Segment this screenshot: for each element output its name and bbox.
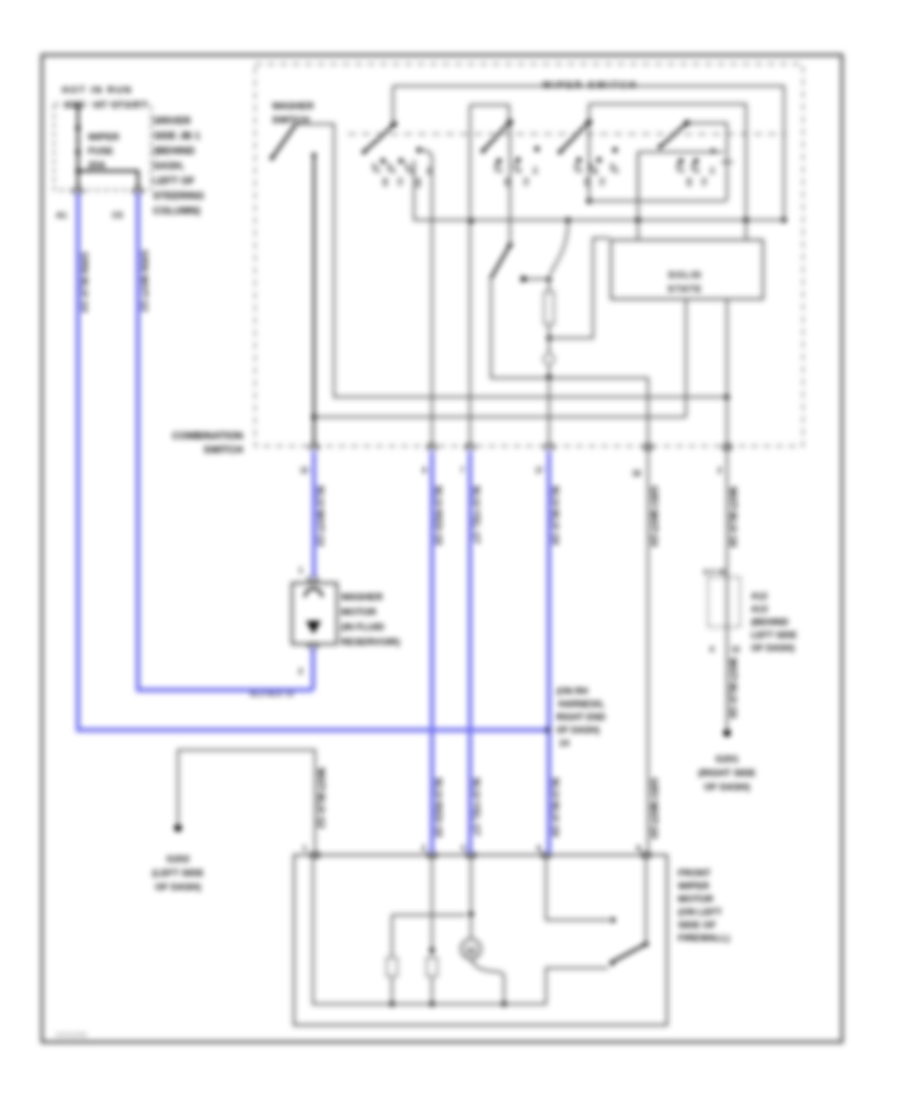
- svg-text:SWITCH: SWITCH: [204, 445, 243, 456]
- svg-text:A13: A13: [751, 604, 768, 614]
- svg-text:+1: +1: [374, 166, 381, 174]
- svg-text:4: 4: [537, 844, 542, 853]
- svg-text:HOT IN RUN: HOT IN RUN: [62, 85, 132, 96]
- svg-text:+2: +2: [693, 166, 700, 174]
- svg-text:A C 42: A C 42: [703, 567, 726, 576]
- svg-text:8: 8: [423, 466, 428, 475]
- svg-text:BLU-BLK-19: BLU-BLK-19: [550, 778, 560, 837]
- svg-text:STATE: STATE: [668, 284, 703, 295]
- svg-text:AND: AND: [64, 100, 85, 111]
- svg-text:B3: B3: [381, 178, 388, 187]
- svg-text:SOLID: SOLID: [668, 270, 702, 281]
- svg-text:14: 14: [559, 738, 569, 748]
- svg-text:SWITCH: SWITCH: [272, 115, 310, 126]
- svg-text:M: M: [466, 944, 476, 958]
- svg-text:DRIVER: DRIVER: [153, 116, 192, 127]
- svg-text:+1: +1: [576, 166, 583, 174]
- svg-text:WIPER: WIPER: [678, 881, 709, 892]
- svg-text:+2: +2: [612, 166, 619, 174]
- svg-text:FUSE: FUSE: [88, 146, 113, 157]
- svg-text:(RIGHT SIDE: (RIGHT SIDE: [698, 768, 756, 779]
- svg-text:4: 4: [710, 645, 715, 654]
- svg-text:RESERVOIR): RESERVOIR): [341, 637, 400, 648]
- svg-text:G201: G201: [715, 754, 739, 765]
- svg-text:(IN FLUID: (IN FLUID: [341, 622, 384, 633]
- svg-text:+S: +S: [531, 166, 538, 175]
- svg-text:13: 13: [300, 466, 309, 475]
- svg-text:BLU-BLK-19: BLU-BLK-19: [550, 486, 560, 545]
- svg-text:+1: +1: [496, 166, 503, 174]
- svg-text:B3: B3: [583, 178, 590, 187]
- svg-text:MOTOR: MOTOR: [341, 607, 376, 618]
- svg-text:WHT-BLK-12: WHT-BLK-12: [316, 768, 326, 829]
- svg-text:2: 2: [299, 667, 304, 676]
- svg-text:GRY-WHT-24: GRY-WHT-24: [649, 778, 659, 839]
- svg-text:E1: E1: [396, 178, 403, 186]
- svg-text:BLU-RED-15: BLU-RED-15: [433, 778, 443, 838]
- svg-text:OF DASH): OF DASH): [155, 882, 201, 893]
- svg-text:(ON LEFT: (ON LEFT: [678, 907, 722, 918]
- svg-text:+2: +2: [515, 166, 522, 174]
- svg-text:STEERING: STEERING: [153, 191, 204, 202]
- svg-text:+S: +S: [708, 166, 715, 175]
- svg-text:BLU-WHT-13: BLU-WHT-13: [315, 486, 325, 547]
- svg-text:(LEFT SIDE: (LEFT SIDE: [152, 868, 204, 879]
- svg-text:E1: E1: [522, 178, 529, 186]
- svg-text:SIDE OF: SIDE OF: [678, 920, 716, 931]
- svg-text:M1002458: M1002458: [56, 1032, 87, 1039]
- svg-text:7: 7: [461, 466, 466, 475]
- svg-text:GRN-BLK-14: GRN-BLK-14: [79, 252, 89, 313]
- svg-text:COLUMN): COLUMN): [153, 206, 200, 217]
- svg-text:BLU-BLK 16: BLU-BLK 16: [250, 689, 294, 698]
- svg-text:1: 1: [299, 566, 304, 575]
- svg-text:+B: +B: [425, 166, 432, 175]
- svg-text:OF DASH): OF DASH): [704, 782, 750, 793]
- svg-text:16: 16: [632, 469, 641, 478]
- svg-text:WASHER: WASHER: [341, 592, 383, 603]
- svg-text:DASH,: DASH,: [153, 161, 184, 172]
- svg-text:C5: C5: [112, 210, 123, 220]
- svg-text:OF DASH): OF DASH): [556, 725, 600, 735]
- svg-text:5: 5: [462, 844, 467, 853]
- svg-text:+S: +S: [407, 166, 414, 175]
- svg-text:LEFT OF: LEFT OF: [153, 176, 195, 187]
- svg-text:AT START: AT START: [94, 100, 148, 111]
- svg-text:3: 3: [422, 844, 427, 853]
- svg-text:FRONT: FRONT: [678, 868, 711, 879]
- svg-text:W2: W2: [414, 178, 421, 188]
- svg-text:OF DASH): OF DASH): [751, 643, 795, 653]
- svg-text:A12: A12: [751, 591, 768, 601]
- svg-text:E1: E1: [700, 178, 707, 186]
- svg-text:17: 17: [535, 466, 544, 475]
- svg-text:(BEHIND: (BEHIND: [153, 146, 195, 157]
- svg-text:WHT-BLK-16: WHT-BLK-16: [728, 487, 738, 548]
- svg-text:6: 6: [637, 844, 642, 853]
- svg-text:LEFT SIDE: LEFT SIDE: [751, 630, 797, 640]
- svg-text:2: 2: [718, 466, 723, 475]
- svg-text:G202: G202: [166, 854, 189, 865]
- svg-text:WHT-BLK-16: WHT-BLK-16: [728, 658, 738, 719]
- svg-text:+1: +1: [678, 166, 685, 174]
- svg-text:(BEHIND: (BEHIND: [751, 617, 789, 627]
- svg-text:GRY-WHT-24: GRY-WHT-24: [649, 486, 659, 547]
- svg-text:COMBINATION: COMBINATION: [172, 431, 243, 442]
- svg-text:E1: E1: [598, 178, 605, 186]
- svg-text:SIDE JB 1: SIDE JB 1: [153, 131, 201, 142]
- svg-text:B3: B3: [503, 178, 510, 187]
- svg-text:MOTOR: MOTOR: [678, 894, 713, 905]
- svg-text:RIGHT END: RIGHT END: [556, 712, 606, 722]
- svg-text:WIPER: WIPER: [88, 132, 119, 143]
- svg-text:HARNESS,: HARNESS,: [558, 699, 605, 709]
- svg-text:A1: A1: [56, 210, 67, 220]
- svg-text:GRN-WHT-12: GRN-WHT-12: [139, 250, 149, 312]
- svg-text:FIREWALL): FIREWALL): [678, 933, 730, 944]
- svg-text:+2: +2: [389, 166, 396, 174]
- svg-text:BLU-RED-15: BLU-RED-15: [433, 486, 443, 546]
- svg-text:1: 1: [303, 844, 308, 853]
- svg-text:WASHER: WASHER: [272, 101, 314, 112]
- svg-text:20A: 20A: [88, 160, 106, 171]
- svg-text:(ON RH: (ON RH: [556, 686, 588, 696]
- svg-text:12: 12: [731, 645, 740, 654]
- svg-text:BLU-YEL-17: BLU-YEL-17: [471, 486, 481, 544]
- svg-text:B3: B3: [685, 178, 692, 187]
- svg-text:BLU-YEL-17: BLU-YEL-17: [471, 778, 481, 836]
- svg-text:+B: +B: [591, 166, 598, 175]
- svg-text:WIPER SWITCH: WIPER SWITCH: [542, 80, 637, 91]
